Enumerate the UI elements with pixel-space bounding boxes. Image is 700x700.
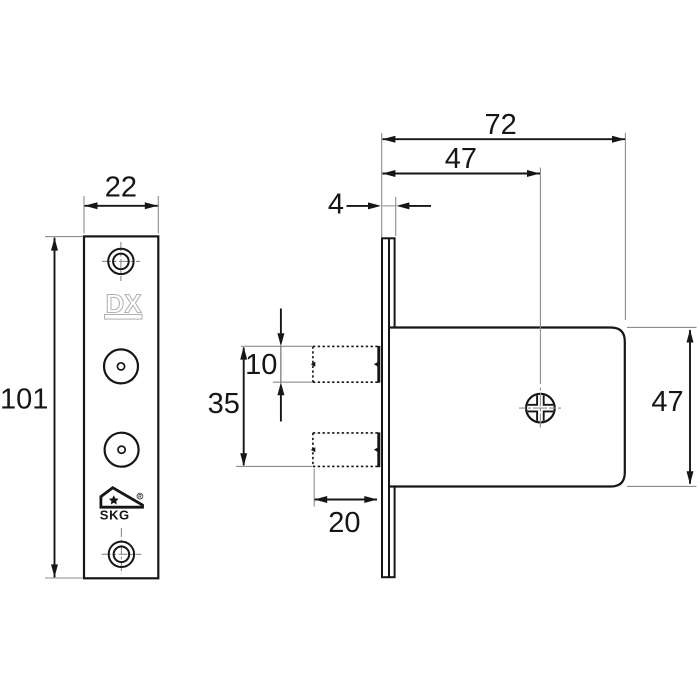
dimension 10 bbox=[245, 309, 284, 422]
svg-text:101: 101 bbox=[0, 384, 48, 416]
bottom screw hole bbox=[109, 542, 134, 567]
svg-text:47: 47 bbox=[445, 143, 477, 175]
svg-text:20: 20 bbox=[328, 507, 360, 539]
dimension 47 top bbox=[382, 143, 540, 177]
bolt extension lines bbox=[236, 346, 314, 506]
dimension 22 extension lines bbox=[84, 196, 158, 234]
bolt 1 tip marks bbox=[311, 362, 316, 367]
lock body bbox=[389, 328, 625, 487]
screw centerlines bbox=[519, 168, 562, 429]
bolt 1 dashed outline bbox=[313, 346, 378, 382]
dimension 47 right bbox=[651, 330, 693, 485]
phillips cross bbox=[524, 391, 557, 425]
bolt 1 face bar bbox=[377, 346, 380, 383]
DX logo bbox=[105, 289, 143, 320]
svg-text:10: 10 bbox=[245, 349, 277, 381]
svg-text:SKG: SKG bbox=[100, 508, 130, 523]
keyhole circle lower bbox=[105, 433, 139, 467]
svg-text:35: 35 bbox=[208, 388, 240, 420]
dimension 101 bbox=[0, 238, 58, 578]
dimension 35 bbox=[208, 347, 248, 467]
bolt 2 face bar bbox=[377, 432, 380, 467]
dimension 47 right extension lines bbox=[627, 327, 697, 486]
SKG logo bbox=[100, 488, 143, 523]
dimension 22 bbox=[85, 171, 158, 209]
svg-text:72: 72 bbox=[484, 109, 516, 141]
dimension 4 bbox=[328, 189, 431, 221]
dimension 101 extension lines bbox=[45, 237, 83, 578]
bottom screw hole centerlines bbox=[102, 528, 142, 574]
top extension lines bbox=[382, 133, 626, 320]
svg-text:22: 22 bbox=[105, 171, 137, 203]
svg-text:4: 4 bbox=[328, 189, 344, 221]
bolt 2 tip marks bbox=[311, 447, 316, 452]
top screw hole bbox=[108, 249, 133, 274]
side plate (faceplate side view) bbox=[381, 238, 396, 577]
faceplate front view bbox=[84, 236, 158, 578]
top screw hole centerlines bbox=[102, 242, 140, 281]
keyhole circle upper bbox=[104, 349, 138, 383]
dimension 20 bbox=[314, 496, 377, 539]
bolt 2 dashed outline bbox=[313, 433, 378, 467]
dimension 72 bbox=[382, 109, 625, 143]
svg-text:47: 47 bbox=[651, 386, 683, 418]
